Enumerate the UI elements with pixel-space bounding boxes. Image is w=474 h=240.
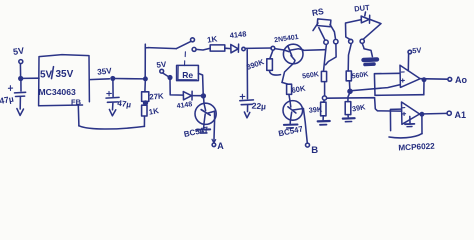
svg-text:5V: 5V [12,46,24,57]
svg-text:560K: 560K [351,71,369,80]
svg-text:DUT: DUT [354,3,371,14]
svg-text:MC34063: MC34063 [39,87,76,97]
svg-text:22µ: 22µ [251,101,266,112]
svg-text:A: A [217,141,224,151]
svg-text:5V: 5V [40,70,53,81]
svg-text:1K: 1K [148,106,160,117]
svg-text:39K: 39K [308,104,323,114]
svg-text:B: B [311,145,318,156]
svg-text:FB: FB [71,97,82,106]
svg-text:5V: 5V [156,60,167,70]
svg-text:BC547: BC547 [183,125,210,139]
svg-text:35V: 35V [56,69,74,80]
svg-text:47µ: 47µ [0,94,15,106]
svg-text:1K: 1K [207,34,219,44]
svg-text:RS: RS [311,6,325,18]
svg-text:60K: 60K [291,84,307,95]
svg-text:4148: 4148 [176,101,193,110]
svg-text:5V: 5V [412,46,422,56]
svg-text:560K: 560K [302,71,320,80]
svg-text:A1: A1 [455,110,467,120]
svg-text:47µ: 47µ [117,99,132,110]
svg-text:Ao: Ao [455,75,467,85]
svg-text:2N5401: 2N5401 [274,34,299,44]
svg-text:4148: 4148 [229,29,247,40]
svg-text:Re: Re [182,70,193,80]
svg-text:BC547: BC547 [278,124,305,138]
svg-text:39K: 39K [351,102,366,113]
svg-text:27K: 27K [149,91,164,101]
svg-text:390K: 390K [245,57,266,72]
svg-text:MCP6022: MCP6022 [398,142,435,153]
svg-text:35V: 35V [97,66,113,77]
